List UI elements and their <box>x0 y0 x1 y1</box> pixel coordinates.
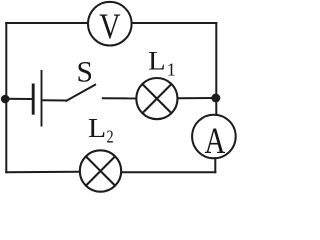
lamp L2 cross <box>86 156 115 185</box>
wire ammeter bottom drop <box>214 157 216 173</box>
wire L1 to right node <box>178 97 214 99</box>
wire left vertical <box>5 22 7 173</box>
svg-text:A: A <box>204 121 225 162</box>
wire bottom-left segment <box>5 171 80 174</box>
switch S blade <box>66 84 97 101</box>
svg-text:S: S <box>76 56 92 88</box>
svg-text:L: L <box>148 47 165 76</box>
battery positive plate (long thin) <box>41 70 43 127</box>
wire middle: node to battery <box>1 98 33 100</box>
node junction dot right <box>211 94 220 103</box>
ammeter A circle <box>192 115 236 159</box>
node junction dot left <box>1 95 10 104</box>
lamp L2 circle <box>80 150 121 191</box>
svg-text:V: V <box>99 8 121 47</box>
svg-text:2: 2 <box>106 128 113 147</box>
wire right vertical upper <box>215 22 217 116</box>
svg-text:L: L <box>88 114 106 143</box>
battery negative plate (short thick) <box>32 84 35 115</box>
lamp L1 circle <box>136 78 177 119</box>
wire top-left segment <box>5 22 88 24</box>
wire bottom-right segment <box>121 171 217 173</box>
lamp L1 cross <box>142 84 171 113</box>
voltmeter V circle <box>88 2 132 46</box>
wire switch contact to lamp L1 <box>102 97 137 99</box>
svg-text:1: 1 <box>167 60 176 80</box>
wire top-right segment <box>131 22 217 24</box>
wire battery to switch pivot <box>43 99 67 101</box>
